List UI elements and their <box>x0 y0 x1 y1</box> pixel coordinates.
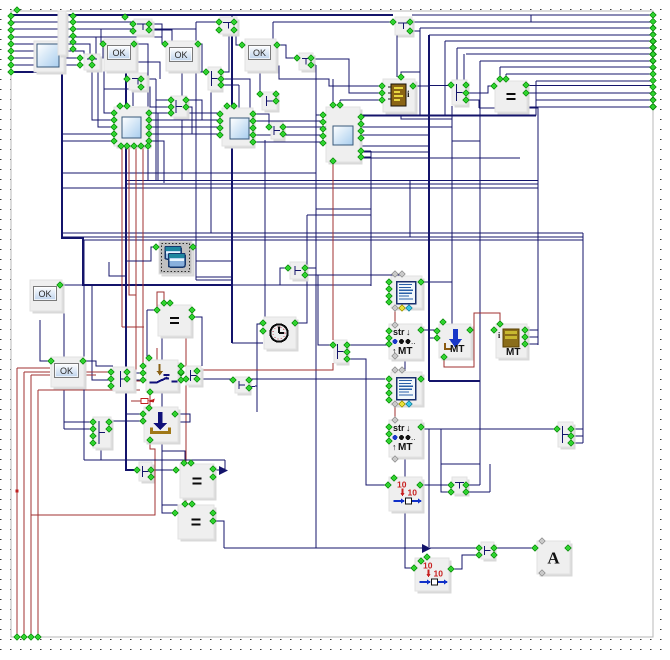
pin at 389,434 <box>386 431 392 437</box>
block clock <box>264 317 299 352</box>
pin at 83,361 <box>80 358 86 364</box>
wire c9w1 <box>280 268 288 285</box>
pin at 171,107 <box>168 104 174 110</box>
wire eq1t2 <box>505 74 507 79</box>
svg-text:str: str <box>393 423 405 433</box>
block connD <box>271 122 286 142</box>
wire eq2 bot red <box>185 336 187 497</box>
pin at 11,23 <box>8 20 14 26</box>
wire clk w1 <box>257 324 263 412</box>
wire rb81 <box>536 80 653 82</box>
wire red doc2 <box>394 405 396 420</box>
wire f3r2 <box>253 120 323 122</box>
wire bus L4 <box>11 36 162 38</box>
pin at 653,41.2 <box>650 38 656 44</box>
arrow marker y549 <box>422 544 431 553</box>
pin at 149,358 <box>146 355 152 361</box>
pin at 137,470 <box>134 467 140 473</box>
pin at 653,54.3 <box>650 51 656 57</box>
pin at 198,44 <box>195 41 201 47</box>
pin at 297,58 <box>294 55 300 61</box>
wire c3w1 <box>234 30 242 45</box>
wire ok4 w <box>60 285 113 380</box>
pin at 192,504 <box>189 501 195 507</box>
wire doc1 top <box>316 274 402 276</box>
wire bus L2c <box>219 21 232 23</box>
wire pair180 <box>127 180 538 182</box>
block connB <box>129 73 150 93</box>
block doc2 <box>391 372 425 408</box>
pin at 277,45 <box>274 42 280 48</box>
wire y141 <box>452 140 480 142</box>
svg-text:MT: MT <box>398 442 412 453</box>
wire v420 <box>419 28 421 116</box>
wire br134 <box>62 133 114 135</box>
pin at 361,138 <box>358 135 364 141</box>
pin (gray) at 395,420 <box>392 417 398 423</box>
wire red h375b <box>84 374 96 376</box>
wire eq2 eq3 red <box>185 497 187 505</box>
pin at 420,485 <box>417 482 423 488</box>
pin at 653,21.55 <box>650 18 656 24</box>
wire y115 <box>340 115 536 117</box>
pin at 141,87 <box>138 84 144 90</box>
pin at 127,372 <box>124 369 130 375</box>
wire f2b red2 <box>129 146 136 295</box>
wire c15 s3 <box>571 442 583 444</box>
pin at 653,80.5 <box>650 77 656 83</box>
wire c11w2 <box>126 413 143 415</box>
wire f2l2 <box>92 66 114 127</box>
wire rb54 <box>466 53 653 55</box>
wire mtd in2 <box>429 337 437 339</box>
wire rb28 <box>420 27 653 29</box>
wire eq3 stub <box>213 469 220 471</box>
svg-text:..: .. <box>411 433 415 442</box>
pin at 427,557 <box>424 554 430 560</box>
block OK1 <box>104 39 139 74</box>
pin at 141,79 <box>138 76 144 82</box>
pin at 156,247 <box>153 244 159 250</box>
block winsel <box>159 241 195 277</box>
pin at 73,42 <box>70 39 76 45</box>
wire y451 <box>162 451 185 463</box>
pin at 451,569 <box>448 566 454 572</box>
block OK5 <box>51 357 87 390</box>
wire bus L4b <box>95 37 97 54</box>
pin at 361,157 <box>358 154 364 160</box>
pin at 421,282 <box>418 279 424 285</box>
wire v156 <box>155 79 157 180</box>
pin at 103,44 <box>100 41 106 47</box>
wire rb61 <box>480 60 653 62</box>
pin at 653,67.4 <box>650 64 656 70</box>
wire c3w2 <box>196 21 219 23</box>
block str2 <box>389 420 425 460</box>
pin (cyan) at 409,404 <box>406 401 412 407</box>
wire rb74 <box>506 73 653 75</box>
pin at 382,86 <box>379 83 385 89</box>
wire thick429 <box>428 35 430 381</box>
wire f2r2 <box>149 119 220 121</box>
pin at 249,388 <box>246 385 252 391</box>
pin at 653,100.14999999999999 <box>650 97 656 103</box>
block eq1 <box>495 81 530 115</box>
pin at 382,100 <box>379 97 385 103</box>
pin at 421,427 <box>418 424 424 430</box>
svg-text:OK: OK <box>174 50 187 60</box>
pin at 526,93 <box>523 90 529 96</box>
pin at 114,127 <box>111 124 117 130</box>
block conn11 <box>93 417 114 451</box>
wire c5b up <box>260 66 382 94</box>
wire f4t2 <box>339 100 341 105</box>
pin at 143,373 <box>140 370 146 376</box>
wire c8w <box>466 86 494 93</box>
block conn16 <box>139 462 155 484</box>
wire cBw2 <box>141 87 171 107</box>
pin at 305,268 <box>302 265 308 271</box>
wire stub mt1 <box>525 329 538 331</box>
wire ok5 lw <box>40 320 51 361</box>
wire y429 long <box>390 428 556 430</box>
wire c4w2 <box>221 79 250 120</box>
wire c7 stub <box>410 30 420 32</box>
wire v490 <box>489 464 491 492</box>
wire v64b <box>63 387 65 429</box>
pin at 73,49 <box>70 46 76 52</box>
pin at 93,436 <box>90 433 96 439</box>
pin at 333,105 <box>330 102 336 108</box>
pin at 80,58 <box>77 55 83 61</box>
wire bus L5 <box>11 44 90 54</box>
pin at 421,379 <box>418 376 424 382</box>
svg-text:MT: MT <box>398 346 412 357</box>
pin at 121,146 <box>118 143 124 149</box>
wire v239 <box>238 85 240 121</box>
wire c4w0 <box>196 71 206 73</box>
wire str1 bot <box>404 357 406 371</box>
svg-text:OK: OK <box>60 366 73 376</box>
pin (gray) at 542,541 <box>539 538 545 544</box>
pin at 127,379 <box>124 376 130 382</box>
pin (cyan) at 409,308 <box>406 305 412 311</box>
wire ok1 thick <box>125 70 127 105</box>
wire dl red <box>31 440 155 515</box>
pin at 165,44 <box>162 41 168 47</box>
pin at 526,85 <box>523 82 529 88</box>
block conn12 <box>186 366 204 388</box>
pin at 120,106 <box>117 103 123 109</box>
arrow marker eq3 <box>219 466 228 475</box>
wire v84 <box>83 240 85 460</box>
pin at 571,443 <box>568 440 574 446</box>
svg-text:↑: ↑ <box>392 442 397 452</box>
wire v457 <box>456 48 458 81</box>
pin at 220,135 <box>217 132 223 138</box>
wire f4b red <box>332 161 334 340</box>
pin at 479,555 <box>476 552 482 558</box>
pin at 494,330 <box>491 327 497 333</box>
block conn18 <box>481 542 497 562</box>
pin at 653,28.1 <box>650 25 656 31</box>
wire eq2 in <box>147 309 157 311</box>
svg-text:OK: OK <box>112 48 125 58</box>
pin (gray) at 395,356 <box>392 353 398 359</box>
pin at 184,463 <box>181 460 187 466</box>
block delay2 <box>415 558 452 594</box>
wire c13 doc2 <box>197 378 385 380</box>
pin at 394,478 <box>391 475 397 481</box>
wire v538 <box>479 108 538 345</box>
pin at 311,65 <box>308 62 314 68</box>
wire y146 <box>362 145 429 147</box>
red junction dot <box>16 490 19 493</box>
pin at 466,485 <box>463 482 469 488</box>
pin at 535,548 <box>532 545 538 551</box>
pin at 311,58 <box>308 55 314 61</box>
pin at 269,127 <box>266 124 272 130</box>
wire bus L1a <box>11 14 393 16</box>
pin at 127,79 <box>124 76 130 82</box>
pin at 206,72 <box>203 69 209 75</box>
wire bus L7 <box>11 57 80 59</box>
wire br187 <box>62 187 538 189</box>
wire v196 <box>195 22 197 280</box>
wire str2 down <box>405 459 414 568</box>
block Ablk <box>537 541 573 577</box>
wire c17w2 <box>466 491 490 493</box>
wire f2r1 <box>149 112 220 114</box>
block conn15 <box>558 422 576 450</box>
wire red fl4 <box>37 390 39 637</box>
wire f3r5 <box>253 141 323 143</box>
wire c12w red <box>181 363 333 370</box>
pin at 213,521 <box>210 518 216 524</box>
block conn13 <box>235 377 252 396</box>
wire bus L3b <box>101 29 103 43</box>
wire red h375 <box>31 374 50 376</box>
pin at 221,79 <box>218 76 224 82</box>
block eq3 <box>180 464 217 501</box>
pin at 233,380 <box>230 377 236 383</box>
pin at 506,79 <box>503 76 509 82</box>
pin at 133,31 <box>130 28 136 34</box>
pin at 361,131 <box>358 128 364 134</box>
wire c11 dn <box>100 446 102 460</box>
pin at 149,408 <box>146 405 152 411</box>
wire pair233 <box>62 232 583 234</box>
svg-text:MT: MT <box>450 344 464 355</box>
pin at 479,548 <box>476 545 482 551</box>
wire v162 <box>162 336 175 513</box>
wire f3r3 <box>283 126 452 128</box>
wire f2b navy <box>126 146 136 470</box>
pin at 347,359 <box>344 356 350 362</box>
wire ok1 tlw <box>92 45 103 58</box>
wire v429b <box>428 429 430 547</box>
pin at 333,161 <box>330 158 336 164</box>
pin at 149,113 <box>146 110 152 116</box>
pin at 653,60.85 <box>650 58 656 64</box>
pin at 143,414 <box>140 411 146 417</box>
pin at 133,24 <box>130 21 136 27</box>
wire v441 <box>441 429 451 492</box>
pin at 220,121 <box>217 118 223 124</box>
pin at 389,302 <box>386 299 392 305</box>
block conn3 <box>220 17 240 37</box>
pin at 114,141 <box>111 138 117 144</box>
pin at 323,129 <box>320 126 326 132</box>
pin at 253,142 <box>250 139 256 145</box>
pin at 150,392 <box>147 389 153 395</box>
block Form1 <box>34 41 67 75</box>
pin at 176,470 <box>173 467 179 473</box>
pin at 653,34.65 <box>650 31 656 37</box>
pin at 414,568 <box>411 565 417 571</box>
block conn14 <box>334 340 350 366</box>
block conn9 <box>290 262 309 282</box>
wire f2r4 <box>149 133 220 135</box>
block mtdown <box>439 324 474 361</box>
wire bus L3 <box>11 28 196 30</box>
wire f2b red1 <box>121 146 123 327</box>
pin at 389,282 <box>386 279 392 285</box>
pin at 393,22 <box>390 19 396 25</box>
pin at 185,504 <box>182 501 188 507</box>
svg-text:↓: ↓ <box>406 423 411 433</box>
block goldmt <box>496 324 530 361</box>
pin at 213,469 <box>210 466 216 472</box>
wire f2r5 <box>149 141 164 183</box>
wire br173 <box>62 172 316 174</box>
pin at 500,324 <box>497 321 503 327</box>
wire v265 <box>264 140 266 317</box>
wire cCr2 <box>186 107 192 134</box>
pin at 11,30 <box>8 27 14 33</box>
wire v452b <box>451 282 453 324</box>
pin at 149,120 <box>146 117 152 123</box>
pin at 389,441 <box>386 438 392 444</box>
wire delay1 w <box>420 484 451 486</box>
pin at 11,65 <box>8 62 14 68</box>
pin at 263,323 <box>260 320 266 326</box>
wire f4r2 <box>359 156 371 158</box>
block conn5 <box>299 53 316 73</box>
block OK4 <box>30 280 65 314</box>
wire c16 out <box>151 469 176 471</box>
wire f4t1 <box>332 79 334 105</box>
pin at 242,45 <box>239 42 245 48</box>
pin at 111,386 <box>108 383 114 389</box>
pin at 80,65 <box>77 62 83 68</box>
block strip1 <box>58 11 69 58</box>
pin at 141,146 <box>138 143 144 149</box>
pin at 653,106.7 <box>650 104 656 110</box>
svg-text:MT: MT <box>506 347 520 358</box>
svg-text:A: A <box>547 549 560 568</box>
wire c9w3 <box>305 275 333 345</box>
pin at 500,79 <box>497 76 503 82</box>
block switch <box>146 360 181 394</box>
pin at 192,317 <box>189 314 195 320</box>
pin at 109,429 <box>106 426 112 432</box>
pin at 389,331 <box>386 328 392 334</box>
block bookI <box>383 79 418 115</box>
wire v536 <box>535 81 537 116</box>
pin at 148,146 <box>145 143 151 149</box>
wire red y327 <box>122 326 144 328</box>
pin at 221,85 <box>218 82 224 88</box>
wire c8w2 <box>429 85 451 87</box>
svg-text:OK: OK <box>253 48 266 58</box>
pin at 389,427 <box>386 424 392 430</box>
pin at 181,372 <box>178 369 184 375</box>
wire sw red <box>149 392 151 408</box>
wire eq4 w2 <box>162 504 185 506</box>
wire cC in1 <box>156 99 171 101</box>
wire bkI top <box>401 72 420 77</box>
pin at 73,29 <box>70 26 76 32</box>
pin at 186,107 <box>183 104 189 110</box>
wire y548 <box>224 547 479 549</box>
wire c4w3 <box>221 84 239 86</box>
block Form2 <box>114 107 152 149</box>
wire clk dn <box>249 386 257 387</box>
wire eq4 w3 <box>213 521 224 548</box>
wire bus L6 <box>11 51 84 54</box>
pin at 653,47.75 <box>650 45 656 51</box>
pin at 451,492 <box>448 489 454 495</box>
wire cBw1 <box>141 78 156 80</box>
wire v196 s1 <box>196 112 220 114</box>
wire c11w <box>109 420 143 422</box>
pin at 92,65 <box>89 62 95 68</box>
pin at 143,421 <box>140 418 146 424</box>
wire bus L2 <box>11 21 133 23</box>
wire y464 <box>441 463 480 465</box>
pin at 186,100 <box>183 97 189 103</box>
pin at 653,73.94999999999999 <box>650 71 656 77</box>
wire red h390 <box>38 389 140 391</box>
block conn4 <box>208 67 224 93</box>
pin at 181,380 <box>178 377 184 383</box>
pin at 109,422 <box>106 419 112 425</box>
pin at 219,22 <box>216 19 222 25</box>
wire rb107 <box>527 106 653 108</box>
pin at 197,379 <box>194 376 200 382</box>
pin at 451,485 <box>448 482 454 488</box>
pin at 437,338 <box>434 335 440 341</box>
wire pair183 <box>127 183 538 185</box>
pin at 466,492 <box>463 489 469 495</box>
wire c11 in2 <box>64 428 93 430</box>
pin at 213,477 <box>210 474 216 480</box>
pin at 114,113 <box>111 110 117 116</box>
wire f4r1 <box>359 150 371 152</box>
block conn8 <box>452 80 470 108</box>
pin at 389,296 <box>386 293 392 299</box>
wire bus L1b <box>412 14 531 16</box>
wire c2w1 <box>149 24 165 44</box>
wire red h372b <box>84 371 113 373</box>
wire c10 sw1 <box>128 372 143 374</box>
wire v445 <box>444 41 446 116</box>
pin (yellow) at 402,404 <box>399 401 405 407</box>
pin (gray) at 395,459 <box>392 456 398 462</box>
wire red doc1 <box>394 309 396 324</box>
pin at 466,100 <box>463 97 469 103</box>
